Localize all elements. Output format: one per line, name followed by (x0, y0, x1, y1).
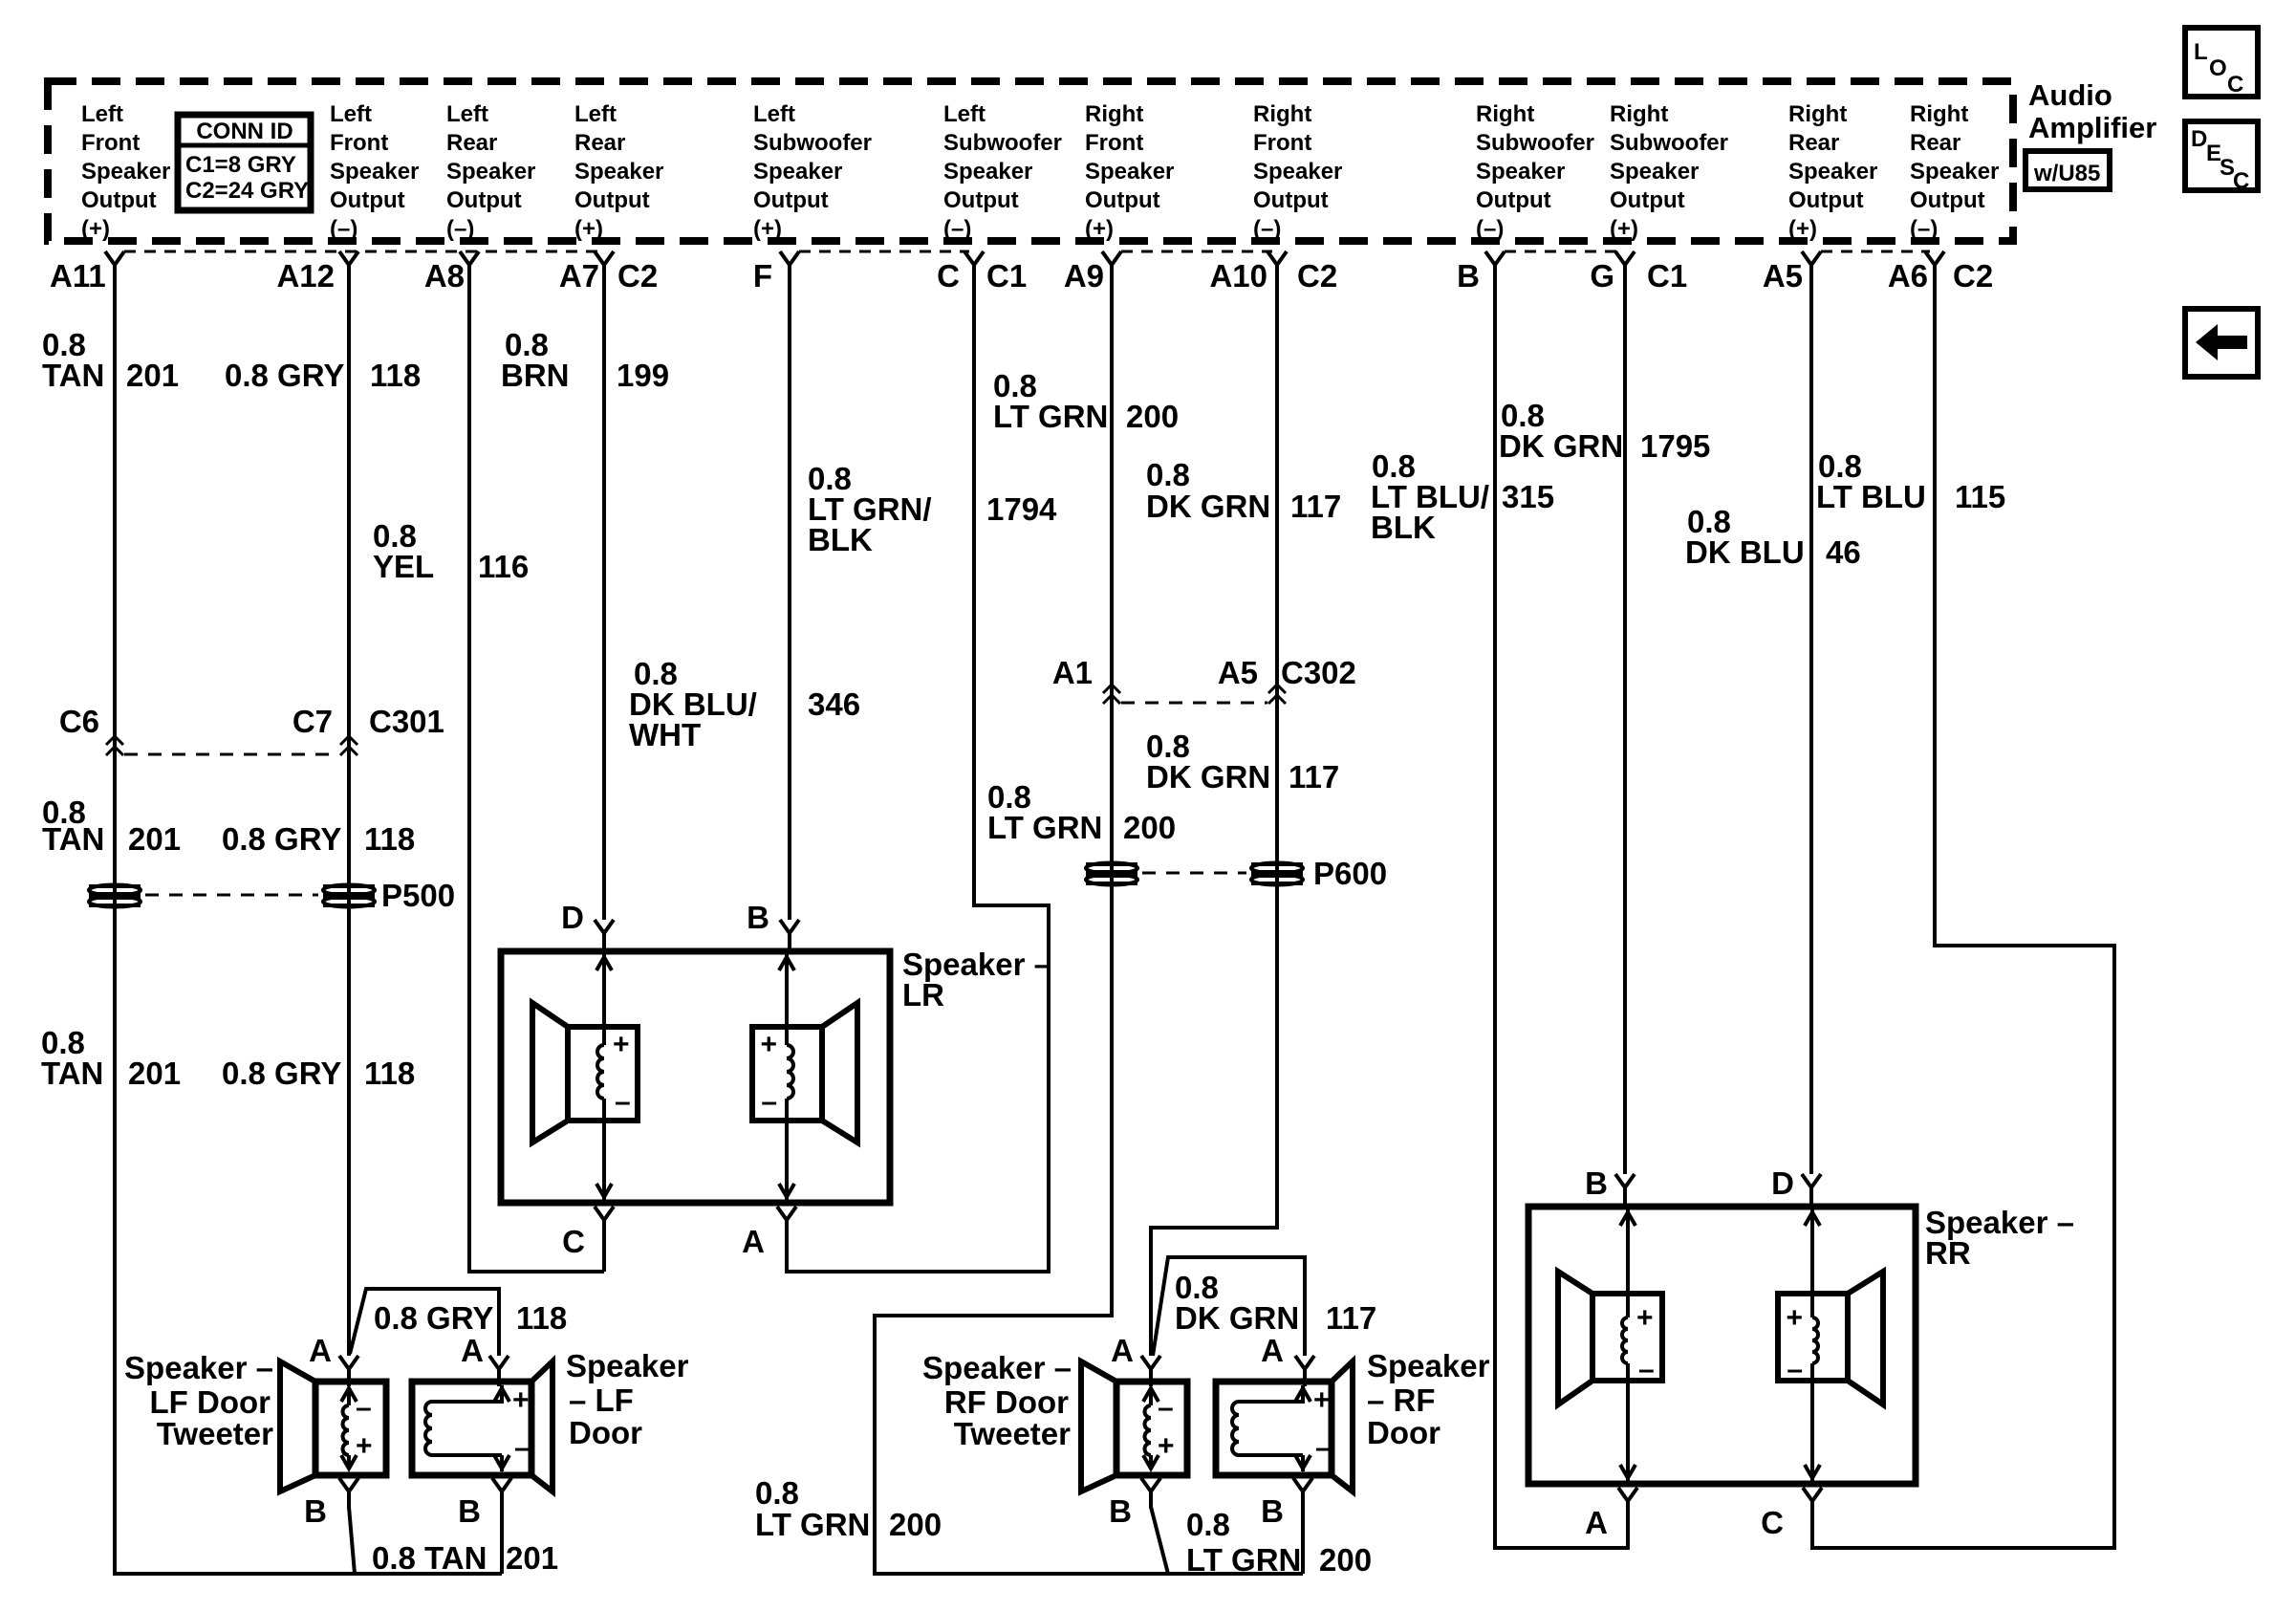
svg-text:B: B (458, 1493, 481, 1529)
svg-text:118: 118 (364, 1056, 415, 1091)
svg-text:RR: RR (1925, 1235, 1971, 1271)
svg-text:115: 115 (1955, 479, 2005, 514)
speaker LR right driver (752, 951, 857, 1203)
svg-text:(+): (+) (81, 216, 110, 242)
svg-text:Left: Left (943, 101, 986, 127)
svg-text:118: 118 (516, 1300, 567, 1336)
in-line connector A1 (1052, 655, 1120, 704)
svg-text:DK BLU: DK BLU (1685, 534, 1805, 570)
speaker RR left driver (1558, 1207, 1662, 1484)
svg-text:A: A (1111, 1333, 1134, 1368)
speaker LF door tweeter (280, 1361, 386, 1491)
amplifier output label at x=467 (446, 101, 535, 242)
svg-text:A11: A11 (50, 258, 106, 294)
svg-text:46: 46 (1826, 534, 1861, 570)
svg-text:201: 201 (128, 1056, 181, 1091)
svg-text:A: A (1585, 1505, 1608, 1540)
svg-text:–: – (1638, 1354, 1655, 1385)
wire label 0.8 GRY 118 (branch) (374, 1300, 567, 1336)
svg-text:Door: Door (1367, 1415, 1440, 1450)
wire label 0.8 DK GRN 117 (top) (1146, 457, 1341, 524)
svg-text:–: – (1158, 1392, 1174, 1424)
speaker RR name (1925, 1205, 2074, 1271)
svg-text:Speaker: Speaker (943, 159, 1032, 185)
svg-text:C2=24 GRY: C2=24 GRY (185, 178, 309, 204)
speaker LR name (902, 947, 1051, 1012)
wire C left-subwoofer(-) 0.8 LT GRN/BLK 1794 (787, 273, 1049, 1272)
svg-text:Rear: Rear (1910, 130, 1960, 156)
svg-text:Speaker: Speaker (1910, 159, 1999, 185)
w/U85 option box (2025, 151, 2110, 189)
speaker LR terminal C (562, 1207, 614, 1272)
pass-through grommet P600 right (1251, 856, 1387, 891)
svg-text:D: D (1771, 1165, 1794, 1201)
amplifier output label at x=345 (330, 101, 419, 242)
svg-text:201: 201 (126, 358, 179, 393)
wire label 0.8 GRY 118 (middle) (222, 821, 415, 857)
P600 dashed pairing line (1142, 872, 1246, 875)
svg-text:B: B (1585, 1165, 1608, 1201)
svg-text:BLK: BLK (808, 522, 873, 557)
amplifier output label at x=85 (81, 101, 170, 242)
svg-text:Output: Output (1476, 187, 1551, 213)
amplifier output label at x=1998 (1910, 101, 1999, 242)
LOC reference box (2185, 28, 2258, 98)
svg-text:Speaker: Speaker (1253, 159, 1342, 185)
svg-text:117: 117 (1289, 759, 1339, 795)
wire A10 right-front(-) 0.8 DK GRN 117 (1151, 273, 1277, 1356)
pass-through grommet P600 left (1086, 863, 1137, 885)
svg-text:YEL: YEL (373, 549, 434, 584)
LF tweeter terminal A (309, 1333, 358, 1386)
wire label 0.8 LT GRN 200 (top) (993, 368, 1179, 434)
svg-text:118: 118 (370, 358, 421, 393)
svg-text:–: – (1787, 1354, 1803, 1385)
svg-text:Right: Right (1610, 101, 1668, 127)
speaker RR terminal A (1585, 1488, 1637, 1540)
svg-text:P600: P600 (1313, 856, 1387, 891)
svg-text:Right: Right (1476, 101, 1534, 127)
svg-text:Speaker –: Speaker – (922, 1350, 1072, 1385)
svg-text:RF Door: RF Door (944, 1384, 1069, 1420)
svg-text:(–): (–) (943, 216, 971, 242)
svg-text:Output: Output (1253, 187, 1329, 213)
svg-text:DK GRN: DK GRN (1146, 759, 1270, 795)
svg-text:C301: C301 (369, 704, 444, 739)
wire label 0.8 TAN 201 (lower) (41, 1025, 181, 1091)
svg-text:O: O (2209, 55, 2227, 81)
svg-text:TAN: TAN (42, 358, 104, 393)
svg-text:+: + (512, 1384, 530, 1416)
svg-text:Left: Left (330, 101, 372, 127)
svg-text:– RF: – RF (1367, 1382, 1436, 1418)
svg-text:+: + (1158, 1430, 1175, 1462)
svg-text:LF Door: LF Door (150, 1384, 271, 1420)
svg-text:(–): (–) (1910, 216, 1938, 242)
svg-text:Output: Output (1788, 187, 1864, 213)
wire A6 right-rear(-) 0.8 LT BLU 115 (1812, 273, 2114, 1548)
svg-text:A9: A9 (1064, 258, 1104, 294)
svg-text:Amplifier: Amplifier (2028, 111, 2156, 144)
wire label 0.8 BRN 199 (501, 327, 669, 393)
wire label 0.8 DK GRN 117 (middle) (1146, 729, 1339, 795)
svg-text:L: L (2194, 39, 2208, 65)
svg-text:LT BLU: LT BLU (1816, 479, 1926, 514)
Audio Amplifier title (2028, 78, 2156, 144)
wire label 0.8 LT BLU/BLK 315 (1371, 448, 1554, 545)
svg-text:Speaker: Speaker (81, 159, 170, 185)
GRY branch to LF door speaker (350, 1289, 499, 1356)
svg-text:C: C (562, 1224, 585, 1259)
amplifier output label at x=1311 (1253, 101, 1342, 242)
svg-text:D: D (561, 900, 584, 935)
svg-text:Speaker: Speaker (574, 159, 663, 185)
svg-text:(+): (+) (1610, 216, 1638, 242)
svg-text:C: C (2233, 168, 2249, 194)
wire label 0.8 LT GRN 200 (bottom left) (755, 1475, 942, 1542)
svg-text:B: B (1457, 258, 1480, 294)
amplifier output label at x=1684 (1610, 101, 1728, 242)
wire label 0.8 LT GRN/BLK 1794 (808, 461, 1057, 557)
RF door terminal A (1261, 1333, 1314, 1386)
svg-text:–: – (1315, 1432, 1332, 1464)
svg-text:199: 199 (617, 358, 669, 393)
svg-text:0.8 GRY: 0.8 GRY (374, 1300, 493, 1336)
svg-text:(–): (–) (1476, 216, 1504, 242)
pass-through grommet P500 left (89, 885, 141, 907)
wire label 0.8 DK BLU 46 (1685, 504, 1861, 570)
wire label 0.8 TAN 201 (bottom) (372, 1540, 558, 1576)
svg-text:BRN: BRN (501, 358, 570, 393)
wire A11 left-front(+) 0.8 TAN 201 vertical (115, 273, 502, 1574)
svg-text:Speaker: Speaker (1610, 159, 1699, 185)
svg-text:Speaker: Speaker (753, 159, 842, 185)
amplifier output label at x=601 (574, 101, 663, 242)
svg-text:–: – (356, 1392, 372, 1424)
svg-text:LT GRN: LT GRN (993, 399, 1108, 434)
speaker RR terminal D (1771, 1165, 1821, 1205)
svg-text:+: + (760, 1029, 777, 1060)
svg-text:0.8: 0.8 (755, 1475, 799, 1511)
svg-text:Left: Left (753, 101, 795, 127)
svg-text:A12: A12 (276, 258, 335, 294)
svg-text:A8: A8 (424, 258, 465, 294)
svg-text:Right: Right (1085, 101, 1143, 127)
speaker RF door tweeter name (922, 1350, 1072, 1451)
wire label 0.8 DK GRN 117 (branch) (1175, 1270, 1376, 1336)
svg-text:346: 346 (808, 686, 860, 722)
svg-text:A10: A10 (1209, 258, 1267, 294)
RF door terminal B (1261, 1478, 1312, 1574)
svg-text:Front: Front (1253, 130, 1311, 156)
svg-text:Subwoofer: Subwoofer (753, 130, 872, 156)
svg-text:w/U85: w/U85 (2033, 161, 2100, 186)
svg-text:Speaker: Speaker (330, 159, 419, 185)
connector C302 dashed pairing line (1121, 702, 1267, 705)
svg-text:Audio: Audio (2028, 78, 2112, 112)
svg-text:+: + (1786, 1302, 1803, 1334)
wire A9 right-front(+) 0.8 LT GRN 200 (875, 273, 1303, 1574)
svg-text:Output: Output (1610, 187, 1685, 213)
in-line connector C6 (59, 704, 123, 755)
svg-text:BLK: BLK (1371, 510, 1436, 545)
svg-text:–: – (514, 1432, 531, 1464)
speaker LR enclosure (501, 951, 890, 1203)
speaker RF door (1216, 1361, 1353, 1491)
svg-text:+: + (613, 1029, 630, 1060)
svg-text:C2: C2 (1953, 258, 1993, 294)
svg-text:(+): (+) (1788, 216, 1817, 242)
svg-text:Speaker –: Speaker – (124, 1350, 273, 1385)
svg-text:Output: Output (943, 187, 1019, 213)
svg-text:Speaker: Speaker (566, 1348, 689, 1383)
svg-text:A5: A5 (1218, 655, 1258, 690)
svg-text:Left: Left (446, 101, 488, 127)
svg-text:118: 118 (364, 821, 415, 857)
svg-text:315: 315 (1502, 479, 1554, 514)
amplifier output label at x=1544 (1476, 101, 1594, 242)
svg-text:0.8 GRY: 0.8 GRY (222, 821, 341, 857)
wire G right-subwoofer(+) 0.8 DK GRN 1795 (1623, 273, 1627, 1174)
speaker LR terminal B (747, 900, 799, 950)
connector C301 dashed pairing line (124, 753, 339, 756)
wire A8 left-rear(-) 0.8 YEL 116 (469, 273, 604, 1272)
svg-text:LT GRN: LT GRN (755, 1507, 870, 1542)
wire label 0.8 DK GRN 1795 (1499, 398, 1710, 464)
svg-text:A: A (461, 1333, 484, 1368)
wire A7 left-rear(+) 0.8 BRN 199 (602, 273, 606, 920)
svg-text:Subwoofer: Subwoofer (943, 130, 1062, 156)
LF door terminal A (461, 1333, 509, 1386)
svg-text:TAN: TAN (41, 1056, 103, 1091)
svg-text:B: B (1109, 1493, 1132, 1529)
svg-text:Rear: Rear (574, 130, 625, 156)
svg-text:Left: Left (81, 101, 123, 127)
svg-text:C2: C2 (1297, 258, 1337, 294)
LF tweeter B wire slant (349, 1507, 355, 1574)
svg-text:C: C (1761, 1505, 1784, 1540)
svg-text:+: + (356, 1430, 373, 1462)
svg-text:C6: C6 (59, 704, 99, 739)
speaker RR terminal B (1585, 1165, 1635, 1205)
amplifier output label at x=987 (943, 101, 1062, 242)
svg-text:B: B (747, 900, 769, 935)
svg-text:Right: Right (1910, 101, 1968, 127)
svg-text:A6: A6 (1888, 258, 1928, 294)
speaker LF door name (566, 1348, 689, 1450)
wire label 0.8 YEL 116 (373, 518, 529, 584)
svg-text:Tweeter: Tweeter (954, 1416, 1071, 1451)
svg-text:Speaker: Speaker (1788, 159, 1877, 185)
svg-text:A1: A1 (1052, 655, 1093, 690)
svg-text:Subwoofer: Subwoofer (1476, 130, 1594, 156)
amplifier output label at x=1135 (1085, 101, 1174, 242)
svg-text:(+): (+) (1085, 216, 1114, 242)
LF tweeter terminal B (304, 1478, 358, 1529)
speaker LR left driver (532, 951, 638, 1203)
svg-text:200: 200 (889, 1507, 942, 1542)
svg-text:C7: C7 (292, 704, 333, 739)
svg-text:Rear: Rear (446, 130, 497, 156)
svg-text:Output: Output (1085, 187, 1160, 213)
wire label 0.8 GRY 118 (lower) (222, 1056, 415, 1091)
wire label 0.8 LT GRN 200 (middle) (987, 779, 1176, 845)
svg-text:A: A (309, 1333, 332, 1368)
svg-text:1794: 1794 (986, 491, 1057, 527)
speaker LF door tweeter name (124, 1350, 273, 1451)
svg-text:A: A (742, 1224, 765, 1259)
svg-text:–: – (615, 1086, 631, 1118)
svg-text:0.8 GRY: 0.8 GRY (222, 1056, 341, 1091)
speaker RR right driver (1778, 1207, 1883, 1484)
svg-text:G: G (1590, 258, 1614, 294)
wire label 0.8 TAN 201 (top) (42, 327, 179, 393)
connector face dashed lines below amplifier (124, 250, 602, 253)
svg-text:Output: Output (330, 187, 405, 213)
speaker LR terminal D (561, 900, 614, 950)
svg-text:A: A (1261, 1333, 1284, 1368)
svg-text:Output: Output (446, 187, 522, 213)
svg-text:– LF: – LF (569, 1382, 634, 1418)
svg-text:200: 200 (1123, 810, 1176, 845)
speaker RF door name (1367, 1348, 1490, 1450)
audio amplifier U1 dashed outline (48, 81, 2013, 241)
svg-text:LT GRN: LT GRN (987, 810, 1102, 845)
svg-text:WHT: WHT (629, 717, 701, 752)
svg-text:(–): (–) (1253, 216, 1281, 242)
svg-text:0.8 TAN: 0.8 TAN (372, 1540, 487, 1576)
wire A5 right-rear(+) 0.8 DK BLU 46 (1809, 273, 1813, 1174)
svg-text:201: 201 (128, 821, 181, 857)
speaker RF door tweeter (1081, 1361, 1187, 1491)
svg-text:A5: A5 (1763, 258, 1803, 294)
svg-text:C1: C1 (1647, 258, 1687, 294)
svg-text:0.8: 0.8 (1186, 1507, 1230, 1542)
svg-text:201: 201 (506, 1540, 558, 1576)
svg-text:C: C (937, 258, 960, 294)
speaker RR terminal C (1761, 1488, 1822, 1540)
wire label 0.8 GRY 118 (top) (225, 358, 421, 393)
pass-through grommet P500 right (323, 878, 455, 913)
in-line connector A5/C302 (1218, 655, 1356, 704)
svg-text:Output: Output (574, 187, 650, 213)
svg-text:DK GRN: DK GRN (1146, 489, 1270, 524)
DK GRN branch to RF door speaker (1153, 1257, 1305, 1356)
wire A12 left-front(-) 0.8 GRY 118 vertical (347, 273, 351, 1356)
svg-text:C: C (2227, 72, 2243, 98)
wire label 0.8 DK BLU/WHT 346 (629, 656, 860, 752)
RF tweeter terminal B (1109, 1478, 1160, 1529)
speaker LF door (412, 1361, 552, 1491)
back-arrow navigation box (2185, 309, 2258, 377)
svg-text:Speaker: Speaker (1085, 159, 1174, 185)
svg-text:Front: Front (330, 130, 388, 156)
svg-text:D: D (2191, 126, 2207, 152)
wire label 0.8 LT GRN 200 (bottom right) (1186, 1507, 1372, 1578)
svg-text:(–): (–) (330, 216, 357, 242)
svg-text:Output: Output (753, 187, 829, 213)
wire F left-subwoofer(+) 0.8 DK BLU/WHT 346 (788, 273, 791, 920)
svg-text:Speaker: Speaker (1367, 1348, 1490, 1383)
svg-text:Door: Door (569, 1415, 642, 1450)
amplifier pin terminals (105, 251, 1944, 282)
svg-text:Output: Output (1910, 187, 1985, 213)
svg-text:DK GRN: DK GRN (1499, 428, 1623, 464)
svg-text:(–): (–) (446, 216, 474, 242)
amplifier output label at x=1871 (1788, 101, 1877, 242)
svg-text:Output: Output (81, 187, 157, 213)
amplifier output label at x=788 (753, 101, 872, 242)
speaker RR enclosure (1528, 1207, 1916, 1484)
svg-text:+: + (1313, 1384, 1331, 1416)
svg-text:Rear: Rear (1788, 130, 1839, 156)
DESC reference box (2185, 121, 2258, 194)
wire B right-subwoofer(-) 0.8 LT BLU/BLK 315 (1495, 273, 1628, 1548)
svg-text:DK GRN: DK GRN (1175, 1300, 1299, 1336)
wire label 0.8 TAN 201 (middle) (42, 795, 181, 857)
svg-text:Left: Left (574, 101, 617, 127)
svg-text:B: B (1261, 1493, 1284, 1529)
LF door terminal B (458, 1478, 511, 1574)
svg-text:TAN: TAN (42, 821, 104, 857)
svg-text:C2: C2 (617, 258, 658, 294)
svg-text:117: 117 (1326, 1300, 1376, 1336)
svg-text:CONN ID: CONN ID (196, 119, 292, 144)
speaker LR terminal A (742, 1207, 796, 1272)
svg-text:Right: Right (1788, 101, 1847, 127)
svg-text:C302: C302 (1281, 655, 1356, 690)
wire label 0.8 LT BLU 115 (1816, 448, 2005, 514)
svg-text:A7: A7 (559, 258, 599, 294)
svg-text:Speaker: Speaker (1476, 159, 1565, 185)
svg-text:Front: Front (1085, 130, 1143, 156)
svg-text:Right: Right (1253, 101, 1311, 127)
svg-text:+: + (1636, 1302, 1654, 1334)
svg-text:117: 117 (1290, 489, 1341, 524)
svg-text:0.8: 0.8 (1146, 457, 1190, 492)
svg-text:LR: LR (902, 977, 944, 1012)
svg-text:LT GRN: LT GRN (1186, 1542, 1301, 1578)
svg-text:B: B (304, 1493, 327, 1529)
svg-text:Tweeter: Tweeter (157, 1416, 273, 1451)
svg-text:C1: C1 (986, 258, 1027, 294)
svg-text:0.8 GRY: 0.8 GRY (225, 358, 344, 393)
RF tweeter terminal A (1111, 1333, 1160, 1386)
svg-text:(+): (+) (753, 216, 782, 242)
svg-text:C1=8 GRY: C1=8 GRY (185, 152, 296, 178)
svg-text:200: 200 (1319, 1542, 1372, 1578)
RF tweeter B wire slant (1151, 1507, 1168, 1574)
svg-text:P500: P500 (381, 878, 455, 913)
svg-text:(+): (+) (574, 216, 603, 242)
svg-text:1795: 1795 (1640, 428, 1710, 464)
svg-text:Speaker: Speaker (446, 159, 535, 185)
svg-text:116: 116 (478, 549, 529, 584)
CONN ID table (178, 115, 311, 210)
svg-text:Subwoofer: Subwoofer (1610, 130, 1728, 156)
svg-text:200: 200 (1126, 399, 1179, 434)
svg-text:F: F (753, 258, 772, 294)
svg-text:Front: Front (81, 130, 140, 156)
svg-text:–: – (761, 1086, 777, 1118)
in-line connector C7 / C301 (292, 704, 444, 755)
P500 dashed pairing line (145, 894, 318, 897)
